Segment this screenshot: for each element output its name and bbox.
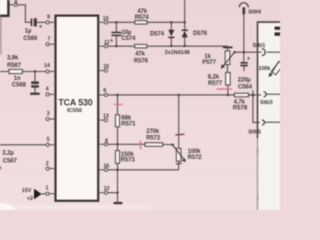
node pin12 row — [116, 192, 118, 194]
scan edge artifacts — [0, 17, 259, 211]
potentiometer 100k inside St6 — [258, 61, 283, 77]
node C574 bottom — [115, 45, 117, 47]
diode D576 — [165, 30, 208, 56]
wire St9/5 inner continuation — [265, 121, 281, 123]
wire C568 leads — [34, 72, 36, 93]
pin 7 — [49, 43, 55, 45]
node R567/C568 — [34, 70, 36, 72]
svg-text:R578: R578 — [233, 105, 248, 112]
wire wiper row to St6/1 — [235, 51, 262, 53]
diode D574 — [150, 30, 174, 38]
red tick on pin8 wire — [140, 140, 142, 149]
capacitor C566 — [23, 18, 43, 42]
resistor R578 — [233, 93, 249, 111]
svg-text:C564: C564 — [238, 84, 253, 90]
node D576 bottom — [184, 45, 186, 47]
svg-text:3: 3 — [47, 111, 50, 117]
node C564/St9-5 branch — [252, 94, 255, 97]
svg-text:8,2k: 8,2k — [208, 75, 220, 81]
pin stubs and circles — [10, 3, 108, 195]
wire pin14 row — [0, 71, 46, 73]
pin 1 — [49, 193, 55, 195]
potentiometer R572 100k — [173, 145, 203, 162]
connector St6/3 — [260, 92, 273, 106]
wire pin12 row — [108, 192, 118, 194]
svg-text:10µ: 10µ — [121, 30, 131, 36]
svg-text:D576: D576 — [193, 31, 208, 37]
red annotation ticks — [114, 89, 232, 149]
node D576 top — [184, 21, 186, 23]
svg-text:+: + — [39, 25, 43, 31]
svg-text:15: 15 — [103, 64, 109, 70]
ground below C568 — [30, 93, 39, 95]
svg-text:1n: 1n — [14, 76, 21, 82]
dark tick on pot top lead — [175, 133, 184, 136]
svg-text:D574: D574 — [150, 31, 165, 37]
svg-text:R571: R571 — [121, 121, 136, 127]
supply arrow 15V at pin 1 — [22, 188, 42, 202]
wire pin8 of module to C566 — [17, 5, 30, 23]
connector St6/1 — [253, 43, 266, 56]
node wiper P577 — [233, 51, 235, 53]
resistor R567 — [7, 56, 22, 74]
wire branch to St9/5 — [253, 95, 260, 122]
pin 9 — [49, 21, 55, 23]
node pin8/R573 — [116, 143, 118, 145]
wire pin5 row — [0, 144, 46, 146]
pin 8 — [98, 143, 104, 145]
pin 15 — [98, 70, 104, 72]
wire D576 leads — [184, 22, 186, 45]
svg-text:C568: C568 — [12, 83, 27, 89]
pin number labels — [14, 0, 109, 192]
ground below pin 12 — [114, 202, 123, 204]
wire pin1 to supply arrow — [42, 193, 46, 195]
svg-text:220µ: 220µ — [238, 77, 252, 83]
svg-text:C574: C574 — [121, 36, 136, 42]
svg-text:2: 2 — [46, 161, 49, 167]
svg-text:C566: C566 — [23, 36, 38, 42]
pin 13 — [98, 119, 104, 121]
node D574 top — [170, 21, 172, 23]
resistor R574 — [135, 9, 150, 24]
node pot top branch — [178, 94, 180, 96]
pin 2 — [49, 168, 55, 170]
svg-text:P577: P577 — [202, 60, 216, 66]
svg-text:R574: R574 — [135, 15, 150, 21]
module box top-left — [0, 0, 8, 16]
wire pin9 row — [37, 21, 46, 23]
svg-text:St9/5: St9/5 — [248, 129, 261, 135]
svg-text:TCA 530: TCA 530 — [58, 97, 92, 107]
svg-text:R577: R577 — [208, 81, 223, 87]
resistor R572 270k — [145, 129, 163, 146]
wire pin16 row — [108, 169, 179, 171]
node C574 top — [115, 21, 117, 23]
wire pot R572 top lead — [178, 95, 180, 148]
wire St9/4 vertical to C564 — [243, 14, 245, 62]
capacitor C567 labels (component off-image) — [0, 150, 18, 171]
svg-text:4: 4 — [46, 87, 49, 93]
resistor R576 — [134, 44, 149, 64]
svg-text:8: 8 — [14, 0, 17, 5]
resistor R571 — [115, 115, 136, 128]
svg-text:5: 5 — [47, 137, 50, 143]
pin 6 — [98, 94, 104, 96]
svg-text:100k: 100k — [258, 66, 271, 72]
dark tick on pot bottom lead — [176, 162, 182, 165]
svg-text:St6/3: St6/3 — [260, 100, 273, 106]
capacitor C568 — [12, 76, 39, 89]
wire C564 bottom stub — [243, 66, 245, 71]
connector St9/4 — [239, 3, 262, 16]
wire R577 bottom lead — [227, 85, 229, 95]
wire pin10 row — [108, 21, 185, 23]
connector bars in St6 box top right — [275, 27, 280, 36]
wire St6/1 inner continuation — [267, 51, 280, 53]
pin 8 of module top-left — [10, 4, 15, 6]
wire pin11 row — [108, 45, 228, 47]
node pin6/R571 — [116, 94, 118, 96]
resistor R577 — [208, 73, 230, 87]
connector St9/5 — [248, 120, 264, 135]
node wiper R572 — [171, 144, 173, 146]
svg-text:IC556: IC556 — [67, 108, 83, 114]
svg-text:6: 6 — [103, 88, 106, 94]
svg-text:1µ: 1µ — [25, 28, 32, 34]
pin 3 — [49, 118, 55, 120]
pin 12 — [98, 192, 104, 194]
svg-text:14: 14 — [44, 63, 50, 69]
svg-text:St9/4: St9/4 — [248, 9, 262, 15]
svg-text:270k: 270k — [146, 129, 160, 135]
svg-text:12: 12 — [104, 186, 110, 192]
svg-text:2,2µ: 2,2µ — [2, 150, 14, 156]
svg-text:2x1N4148: 2x1N4148 — [165, 50, 190, 56]
op-amp IC556 TCA530 main IC box — [56, 16, 99, 201]
svg-text:+2: +2 — [27, 196, 33, 202]
red line at R577 bottom — [217, 88, 232, 90]
wire D574 leads — [170, 22, 172, 45]
svg-text:3,9k: 3,9k — [7, 56, 19, 62]
capacitor C564 — [238, 56, 253, 90]
node D574 bottom — [170, 45, 172, 47]
svg-text:St6/1: St6/1 — [253, 43, 266, 49]
svg-text:8: 8 — [105, 138, 108, 144]
pin 5 — [49, 144, 55, 146]
wire P577 top stub — [227, 46, 229, 51]
svg-text:C567: C567 — [3, 158, 18, 164]
svg-text:R572: R572 — [188, 155, 203, 161]
wire pin8 row — [108, 143, 173, 145]
node St9/4 line x wiper row — [243, 51, 245, 53]
wire R573 column — [117, 144, 119, 202]
wire C564 to junction stub — [252, 90, 254, 95]
pin 14 — [49, 71, 55, 73]
red tick below pin6 junction — [114, 103, 122, 105]
svg-text:7: 7 — [47, 36, 50, 42]
wire pot R572 bottom lead — [178, 161, 180, 170]
node R577 bottom — [227, 94, 229, 96]
wire pin6 row — [108, 94, 262, 96]
capacitor C574 — [110, 30, 136, 45]
svg-text:+: + — [247, 56, 251, 62]
pin 10 — [98, 21, 104, 23]
svg-text:R573: R573 — [121, 158, 136, 164]
wire P577 to R577 stub — [226, 65, 228, 73]
trimmer P577 — [202, 46, 234, 68]
svg-text:16: 16 — [103, 163, 109, 169]
svg-text:9: 9 — [47, 15, 50, 21]
wire vertical to top edge — [184, 0, 186, 22]
unit box St6/1 (right side white block) — [258, 22, 281, 210]
svg-text:R576: R576 — [134, 59, 149, 65]
wire R571 column — [117, 95, 119, 144]
svg-text:+: + — [110, 39, 114, 45]
node pin16 row — [116, 169, 118, 171]
pin 4 — [49, 93, 55, 95]
svg-text:10: 10 — [103, 16, 109, 22]
svg-text:47k: 47k — [135, 52, 145, 58]
svg-text:13: 13 — [103, 114, 109, 120]
wire C574 leads — [115, 22, 117, 46]
svg-text:1: 1 — [45, 185, 48, 191]
pin 11 — [98, 45, 104, 47]
pin 16 — [98, 169, 104, 171]
svg-text:15V: 15V — [22, 188, 32, 194]
svg-text:R567: R567 — [7, 63, 22, 69]
wire St6/3 inner continuation — [267, 93, 281, 95]
svg-text:R572: R572 — [146, 135, 161, 141]
svg-text:11: 11 — [104, 40, 110, 46]
resistor R573 — [115, 151, 135, 164]
